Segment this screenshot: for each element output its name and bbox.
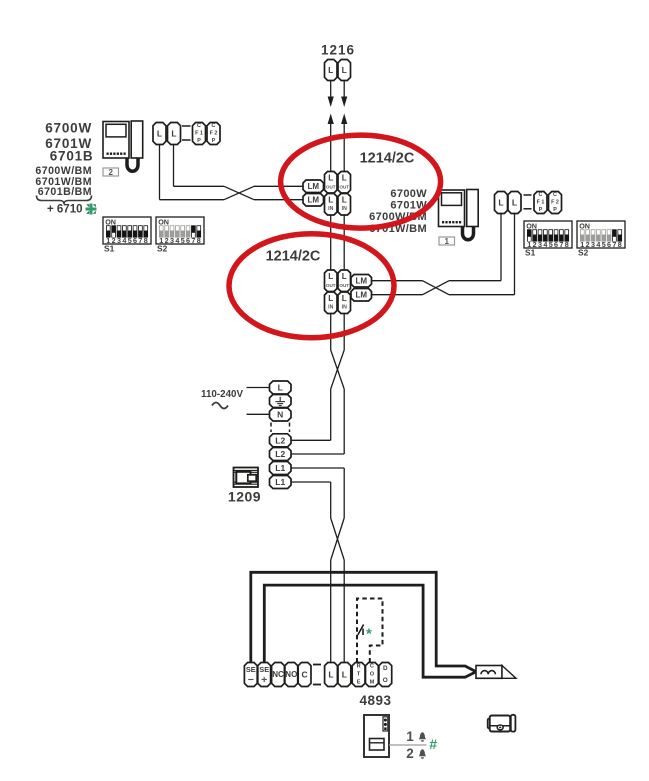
terminal RTE <box>352 663 365 687</box>
wire from handset1 L-b down <box>514 214 516 295</box>
svg-text:F 1: F 1 <box>195 131 203 137</box>
svg-text:N: N <box>277 410 283 420</box>
svg-text:1: 1 <box>444 237 449 246</box>
push-button symbol <box>358 625 364 636</box>
svg-text:O: O <box>370 672 375 678</box>
green config cross symbol <box>86 204 97 215</box>
label box 1 <box>439 237 455 245</box>
svg-text:−: − <box>248 674 254 686</box>
terminal L2 (a) <box>270 434 292 447</box>
wire with down arrow (1216 left L) <box>330 81 332 100</box>
terminal NC <box>272 663 285 687</box>
mains wire to L <box>247 387 270 389</box>
svg-text:M: M <box>370 680 375 686</box>
svg-text:OUT: OUT <box>339 283 349 288</box>
terminal SE- <box>244 663 257 687</box>
wire into U2 LM bottom <box>371 294 423 296</box>
svg-text:6: 6 <box>607 240 611 249</box>
mains wire to N <box>247 413 270 415</box>
svg-text:LM: LM <box>355 276 367 285</box>
svg-text:L2: L2 <box>275 449 285 459</box>
svg-text:5: 5 <box>602 240 606 249</box>
terminal CF2 (handset1) <box>549 192 562 214</box>
svg-text:L: L <box>342 294 347 303</box>
bell 1 <box>419 732 426 739</box>
svg-text:F 2: F 2 <box>551 200 559 206</box>
svg-text:L: L <box>498 198 503 208</box>
svg-text:6: 6 <box>186 236 190 245</box>
svg-text:C: C <box>302 670 308 680</box>
svg-text:7: 7 <box>138 236 142 245</box>
svg-text:L: L <box>328 195 333 204</box>
U1 terminal LM (bottom) <box>303 194 324 207</box>
svg-text:8: 8 <box>197 236 201 245</box>
wire with down arrow (1216 right L) <box>343 81 345 100</box>
svg-text:L: L <box>328 173 333 182</box>
twist crossing 1 <box>331 350 345 389</box>
dashed row continuation <box>313 664 321 666</box>
U1 terminal L OUT (right) <box>338 172 351 194</box>
svg-text:+ 6710: + 6710 <box>47 203 83 215</box>
svg-text:4: 4 <box>543 240 547 249</box>
terminal L1 (b) <box>270 476 292 489</box>
svg-text:LM: LM <box>307 195 319 204</box>
terminal L (handset2 a) <box>153 123 166 145</box>
svg-text:NO: NO <box>285 670 297 679</box>
svg-text:S1: S1 <box>104 244 115 254</box>
svg-text:1214/2C: 1214/2C <box>360 151 415 167</box>
svg-text:S1: S1 <box>525 248 536 258</box>
svg-text:T: T <box>357 672 361 678</box>
svg-text:8: 8 <box>565 240 569 249</box>
U2 terminal L IN (right) <box>338 292 351 314</box>
terminal DO <box>379 663 392 687</box>
wire into U2 LM top <box>371 280 423 282</box>
svg-text:O: O <box>383 677 388 684</box>
terminal C <box>298 663 311 687</box>
svg-text:L1: L1 <box>275 477 285 487</box>
power supply 1209 icon <box>234 468 259 488</box>
terminal CF2 (handset2) <box>207 123 220 145</box>
call wire to bells <box>389 744 427 746</box>
red highlight ellipse (U1) <box>281 135 441 228</box>
bus wire to L2 terminals (right) <box>343 389 345 454</box>
svg-text:C: C <box>197 123 201 129</box>
terminal L (handset1 a) <box>495 192 508 214</box>
svg-text:L: L <box>157 129 162 139</box>
terminal L1 (a) <box>270 462 292 475</box>
bus wire to door panel L (right) <box>343 560 345 663</box>
twist crossing 2 <box>331 518 345 560</box>
U1 terminal L OUT (left) <box>325 172 338 194</box>
svg-text:IN: IN <box>342 206 347 212</box>
svg-text:LM: LM <box>355 290 367 299</box>
svg-text:6: 6 <box>133 236 137 245</box>
svg-text:L: L <box>512 198 517 208</box>
svg-text:L2: L2 <box>275 435 285 445</box>
svg-text:2: 2 <box>108 168 113 177</box>
svg-text:L1: L1 <box>275 463 285 473</box>
terminal L (handset1 b) <box>508 192 521 214</box>
wire from handset2 L-a down <box>159 145 161 200</box>
DIP switch S1 (left) <box>103 217 151 244</box>
svg-text:L: L <box>278 383 283 393</box>
svg-text:IN: IN <box>328 206 333 212</box>
svg-text:LM: LM <box>307 182 319 191</box>
svg-text:OUT: OUT <box>326 184 336 189</box>
svg-text:3: 3 <box>170 236 174 245</box>
wire L1 to bus (left) <box>291 481 331 483</box>
svg-text:C: C <box>553 192 557 198</box>
dashed link to CF terminals <box>182 125 191 127</box>
svg-text:+: + <box>261 674 267 686</box>
svg-text:R: R <box>357 664 361 670</box>
under-brace <box>37 196 92 205</box>
svg-text:L: L <box>328 670 333 680</box>
U2 terminal L OUT (right) <box>338 270 351 292</box>
U2 terminal L IN (left) <box>325 292 338 314</box>
svg-text:6701B: 6701B <box>50 148 94 163</box>
bus wire U1 L IN to U2 L OUT (left) <box>330 215 332 270</box>
twisted-pair crossing (left) <box>224 186 254 199</box>
svg-text:IN: IN <box>342 304 347 310</box>
svg-text:5: 5 <box>549 240 553 249</box>
terminal CF1 (handset1) <box>534 192 547 214</box>
svg-text:E: E <box>357 680 361 686</box>
terminal L2 (b) <box>270 448 292 461</box>
bus wire to L2 terminals (left) <box>330 389 332 440</box>
svg-text:L: L <box>342 173 347 182</box>
wire into U1 LM bottom <box>254 199 303 201</box>
label box 2 <box>103 168 119 176</box>
bell 2 <box>419 749 426 756</box>
svg-text:OUT: OUT <box>326 283 336 288</box>
svg-text:1: 1 <box>406 729 414 744</box>
terminal NO <box>285 663 298 687</box>
door strike wedge <box>502 666 516 679</box>
entrance panel 4893 icon <box>364 715 389 757</box>
svg-text:#: # <box>429 736 437 752</box>
camera icon <box>488 715 516 732</box>
svg-text:4: 4 <box>596 240 600 249</box>
wire into U1 LM top <box>254 185 303 187</box>
bus wire U1 L IN to U2 L OUT (right) <box>343 215 345 270</box>
svg-text:4893: 4893 <box>359 693 391 708</box>
twisted-pair crossing (right) <box>423 281 450 295</box>
svg-text:C: C <box>370 664 374 670</box>
svg-text:1216: 1216 <box>321 43 355 58</box>
door strike body <box>476 666 502 679</box>
svg-text:3: 3 <box>117 236 121 245</box>
svg-text:F 1: F 1 <box>537 200 545 206</box>
svg-text:P: P <box>553 207 557 213</box>
svg-text:4: 4 <box>122 236 126 245</box>
svg-text:7: 7 <box>191 236 195 245</box>
U1 terminal LM (top) <box>303 180 324 193</box>
svg-text:7: 7 <box>559 240 563 249</box>
svg-text:*: * <box>366 627 372 643</box>
wire L1 to bus (right) <box>291 467 344 469</box>
terminal L (1216, right) <box>338 60 351 81</box>
terminal L (1216, left) <box>325 60 338 81</box>
svg-text:L: L <box>328 294 333 303</box>
thick wire inner loop (SE+ to strike) <box>264 585 476 677</box>
svg-text:2: 2 <box>406 746 414 761</box>
wire with up arrow (to U1 L OUT right) <box>343 122 345 172</box>
terminal L (mains) <box>270 381 292 394</box>
svg-text:C: C <box>212 123 216 129</box>
U2 terminal LM (top) <box>351 275 372 288</box>
svg-text:3: 3 <box>538 240 542 249</box>
DIP switch S2 (right) <box>577 221 625 248</box>
svg-text:L: L <box>342 272 347 281</box>
wire with up arrow (to U1 L OUT left) <box>330 122 332 172</box>
terminal COM <box>366 663 379 687</box>
svg-text:3: 3 <box>591 240 595 249</box>
U1 terminal L IN (left) <box>325 194 338 216</box>
svg-text:6701B/BM: 6701B/BM <box>38 186 92 198</box>
svg-text:F 2: F 2 <box>210 131 218 137</box>
bus wire below U2 (left) <box>330 314 332 351</box>
dashed separator <box>270 423 272 433</box>
svg-text:L: L <box>171 129 176 139</box>
terminal N (mains) <box>270 408 292 421</box>
terminal SE+ <box>258 663 271 687</box>
svg-text:NC: NC <box>272 670 284 679</box>
terminal L (panel a) <box>325 663 338 687</box>
svg-text:6: 6 <box>554 240 558 249</box>
svg-text:P: P <box>539 207 543 213</box>
svg-text:IN: IN <box>328 304 333 310</box>
door strike coil <box>481 671 495 675</box>
svg-text:4: 4 <box>175 236 179 245</box>
U1 terminal L IN (right) <box>338 194 351 216</box>
svg-text:L: L <box>328 272 333 281</box>
thick wire outer loop (SE- to strike) <box>251 572 476 671</box>
terminal L (panel b) <box>338 663 351 687</box>
svg-text:L: L <box>342 65 347 75</box>
svg-text:P: P <box>197 138 201 144</box>
svg-text:L: L <box>342 195 347 204</box>
svg-text:1214/2C: 1214/2C <box>266 249 321 265</box>
svg-text:OUT: OUT <box>339 184 349 189</box>
svg-text:8: 8 <box>618 240 622 249</box>
svg-text:S2: S2 <box>578 248 589 258</box>
video handset device 1 (6700W family) <box>439 190 465 227</box>
svg-text:110-240V: 110-240V <box>201 389 243 400</box>
AC tilde symbol <box>212 403 228 409</box>
red highlight ellipse (U2) <box>229 234 394 338</box>
svg-text:5: 5 <box>181 236 185 245</box>
svg-text:1209: 1209 <box>228 489 261 505</box>
dashed link to CF (right) <box>524 194 532 196</box>
bus wire to door panel L (left) <box>330 560 332 663</box>
svg-text:P: P <box>212 138 216 144</box>
svg-text:6700W: 6700W <box>390 188 427 200</box>
svg-text:C: C <box>539 192 543 198</box>
DIP switch S2 (left) <box>156 217 204 244</box>
terminal CF1 (handset2) <box>193 123 206 145</box>
terminal L (handset2 b) <box>168 123 181 145</box>
svg-text:6700W: 6700W <box>45 121 92 136</box>
bus wire below U2 (right) <box>343 314 345 351</box>
svg-text:L: L <box>328 65 333 75</box>
video handset device 2 (6700W family) <box>103 122 129 159</box>
DIP switch S1 (right) <box>524 221 572 248</box>
U2 terminal L OUT (left) <box>325 270 338 292</box>
dashed jumper RTE/COM <box>357 599 383 663</box>
svg-text:L: L <box>342 670 347 680</box>
svg-text:8: 8 <box>144 236 148 245</box>
wire from handset2 L-b down <box>173 145 175 187</box>
terminal earth <box>270 395 292 408</box>
U2 terminal LM (bottom) <box>351 289 372 302</box>
svg-text:5: 5 <box>128 236 132 245</box>
svg-text:S2: S2 <box>157 244 168 254</box>
svg-text:7: 7 <box>612 240 616 249</box>
svg-text:D: D <box>383 665 388 672</box>
wire from handset1 L-a down <box>500 214 502 281</box>
